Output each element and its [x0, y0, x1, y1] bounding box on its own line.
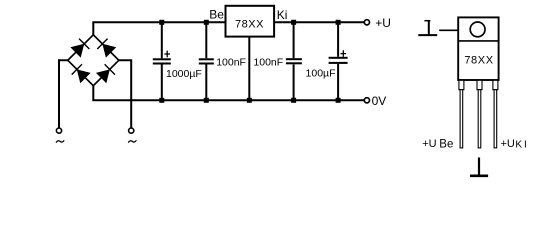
terminal AC left: [56, 128, 61, 133]
wire AC input left: [59, 60, 68, 128]
svg-text:100µF: 100µF: [306, 67, 336, 79]
svg-text:100nF: 100nF: [216, 56, 246, 68]
svg-text:Be: Be: [439, 139, 453, 151]
wire C3 top: [293, 22, 295, 58]
wire C4 bottom: [337, 64, 339, 100]
label ~ right: [128, 140, 136, 142]
capacitor C4 100uF plates: [329, 57, 348, 64]
terminal +U: [364, 20, 369, 25]
svg-text:KI: KI: [515, 140, 528, 151]
pin 1 Be: [459, 80, 464, 148]
wire AC input right: [119, 60, 131, 128]
junction dot C3 top: [291, 20, 296, 25]
wire C1 bottom: [161, 65, 163, 101]
svg-text:+U: +U: [422, 138, 436, 150]
pin 3 Ki: [493, 80, 498, 148]
junction dot C4 bottom: [336, 98, 341, 103]
wire C2 top: [205, 22, 207, 58]
svg-text:Be: Be: [209, 8, 224, 22]
diode D2 upper-right: [97, 39, 116, 58]
svg-text:78XX: 78XX: [235, 19, 264, 31]
regulator package TO-220 outline: [458, 17, 498, 80]
wire ground to tab: [439, 29, 458, 31]
svg-text:100nF: 100nF: [253, 56, 283, 68]
diode D4 lower-right: [96, 64, 115, 83]
wire C2 bottom: [205, 65, 207, 101]
diode D3 lower-left: [72, 64, 91, 83]
capacitor C2 100nF plates: [199, 58, 214, 64]
wire top rail (+): [93, 22, 364, 35]
wire U1 ground pin: [248, 37, 250, 101]
svg-text:1000µF: 1000µF: [166, 68, 202, 80]
package tab divider: [458, 40, 498, 42]
regulator U1 box: [226, 6, 275, 37]
wire C4 top: [337, 22, 339, 57]
ground symbol pin 2: [470, 158, 488, 176]
wire bottom rail (0V): [93, 86, 364, 101]
label ~ left: [56, 140, 64, 142]
diode D1 upper-left: [70, 39, 89, 58]
junction dot C2 bottom: [204, 98, 209, 103]
junction dot C1 bottom: [159, 98, 164, 103]
capacitor C3 100nF plates: [286, 58, 302, 64]
terminal 0V: [364, 98, 369, 103]
junction dot C1 top: [159, 20, 164, 25]
junction dot C4 top: [336, 20, 341, 25]
pin 2 ground: [477, 80, 482, 148]
junction dot C2 top: [204, 20, 209, 25]
polarity + of C1: [164, 51, 170, 58]
junction dot C3 bottom: [291, 98, 296, 103]
bridge rectifier diamond: [68, 35, 119, 86]
svg-text:Ki: Ki: [277, 8, 288, 22]
svg-text:78XX: 78XX: [464, 54, 493, 66]
terminal AC right: [129, 128, 134, 133]
svg-text:+U: +U: [501, 138, 515, 150]
svg-text:+U: +U: [375, 16, 391, 30]
wire C1 top: [161, 22, 163, 58]
wire C3 bottom: [293, 65, 295, 101]
svg-text:0V: 0V: [372, 94, 387, 108]
capacitor C1 1000uF plates: [153, 58, 171, 64]
mounting hole: [470, 22, 485, 37]
junction dot U1 ground: [247, 98, 252, 103]
polarity + of C4: [341, 50, 347, 57]
ground symbol at tab: [418, 20, 437, 35]
